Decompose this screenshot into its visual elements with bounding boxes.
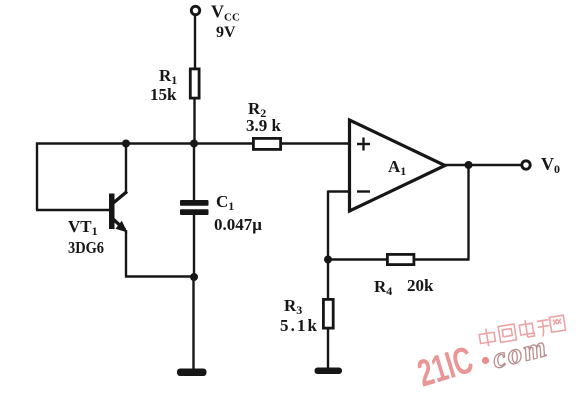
resistor R2 (253, 138, 280, 149)
wire R4 right (414, 258, 470, 260)
wire minus input (328, 190, 350, 192)
svg-text:VCC: VCC (211, 2, 240, 24)
junction dot emitter/C1 node (190, 273, 198, 281)
svg-text:9V: 9V (216, 24, 236, 41)
svg-text:20k: 20k (407, 276, 434, 295)
terminal Vo (522, 161, 530, 169)
resistor R3 (323, 299, 333, 328)
wire node to ground (192, 276, 194, 369)
wire C1 top (193, 143, 195, 202)
watermark com (489, 331, 551, 376)
char 国 (498, 324, 516, 342)
wire Vcc stem (194, 14, 196, 69)
svg-text:5.1k: 5.1k (280, 316, 318, 335)
svg-text:R1: R1 (159, 66, 177, 87)
capacitor C1 plates (180, 200, 209, 215)
resistor R4 (387, 254, 414, 264)
wire R1 bottom to main node (193, 98, 195, 145)
wire output horizontal (444, 164, 521, 166)
junction dot collector node (122, 140, 130, 148)
svg-text:C1: C1 (216, 192, 234, 213)
wire R4 left (327, 258, 387, 260)
transistor VT1 collector diagonal (112, 192, 127, 205)
op-amp plus sign (357, 138, 370, 151)
svg-text:0.047μ: 0.047μ (214, 215, 262, 234)
junction dot R3/R4 node (324, 256, 332, 264)
svg-text:R4: R4 (374, 277, 392, 298)
svg-text:15k: 15k (150, 85, 177, 104)
watermark chinese 中国电子网 (478, 314, 566, 347)
wire left loop vertical (36, 143, 38, 211)
svg-text:3DG6: 3DG6 (68, 238, 104, 257)
wire C1 bottom to node (193, 214, 195, 277)
wire R3 bottom (327, 328, 329, 368)
watermark dot (482, 357, 489, 364)
transistor VT1 emitter arrow (116, 221, 128, 233)
wire R2 to op-amp plus input (281, 142, 350, 144)
junction dot main node (190, 140, 198, 148)
transistor VT1 base bar (109, 194, 115, 230)
resistor R1 (190, 69, 199, 98)
char 子 (537, 320, 551, 338)
transistor VT1 emitter diagonal (112, 218, 125, 230)
wire feedback vertical (467, 165, 469, 260)
wire emitter to ground node (125, 275, 194, 277)
char 中 (479, 332, 495, 343)
wire minus vertical (327, 191, 329, 261)
svg-text:R3: R3 (284, 296, 302, 317)
svg-text:V0: V0 (541, 154, 560, 176)
wire R3 top (327, 260, 329, 301)
wire base horizontal (36, 209, 109, 211)
terminal Vcc (191, 6, 199, 14)
char 电 (519, 323, 533, 335)
svg-text:3.9 k: 3.9 k (246, 116, 282, 135)
char 网 (549, 315, 565, 332)
ground left (177, 369, 207, 377)
op-amp minus sign (357, 190, 370, 192)
ground right (315, 368, 343, 375)
watermark 21IC (413, 339, 478, 394)
op-amp A1 (350, 120, 446, 211)
wire collector vertical (125, 143, 127, 194)
svg-text:com: com (489, 331, 551, 376)
svg-text:VT1: VT1 (68, 217, 98, 238)
wire emitter vertical (125, 230, 127, 278)
wire main horizontal left of R2 (36, 142, 253, 144)
junction dot output node (465, 161, 473, 169)
svg-text:21IC: 21IC (413, 339, 478, 394)
